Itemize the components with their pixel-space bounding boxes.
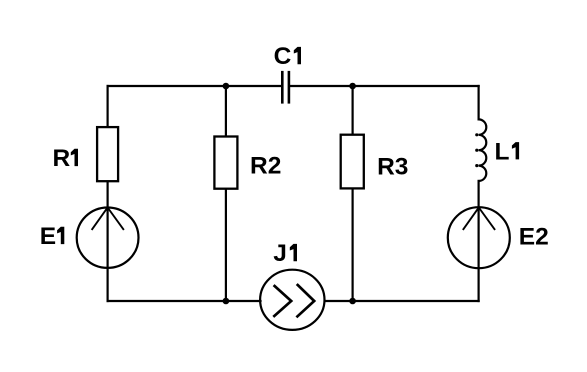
wire left rail upper (top corner to R1) xyxy=(106,86,108,127)
wire R2 branch upper xyxy=(225,86,227,136)
label L1 xyxy=(495,138,520,165)
svg-text:C: C xyxy=(274,43,292,70)
wire top rail left segment xyxy=(108,85,282,87)
node junction dot bottom right (R3 bottom) xyxy=(349,298,356,305)
label C1 xyxy=(274,43,301,70)
current source J1 xyxy=(260,270,324,330)
label E1 xyxy=(40,223,65,250)
wire right rail upper (top corner to L1) xyxy=(478,86,480,119)
voltage source E2 xyxy=(448,207,510,268)
node junction dot bottom left (R2 bottom) xyxy=(223,298,230,305)
svg-text:L: L xyxy=(495,138,510,165)
node junction dot top left (R2 top) xyxy=(223,83,230,90)
svg-text:R3: R3 xyxy=(377,154,408,181)
label R1 xyxy=(53,145,78,172)
voltage source E1 xyxy=(77,208,139,268)
wire bottom rail right segment xyxy=(325,300,479,302)
resistor R2 xyxy=(214,137,237,189)
inductor L1 xyxy=(475,119,486,181)
svg-text:R2: R2 xyxy=(250,153,281,180)
wire left rail lower (R1 to bottom rail, arrow shaft through E1) xyxy=(106,182,108,301)
svg-text:R: R xyxy=(53,145,71,172)
wire R3 branch upper xyxy=(352,86,354,134)
resistor R1 xyxy=(97,127,118,181)
capacitor C1 xyxy=(282,71,289,104)
svg-text:E2: E2 xyxy=(519,223,549,250)
wire R2 branch lower xyxy=(225,190,227,302)
wire top rail right segment xyxy=(290,85,479,87)
wire bottom rail left segment xyxy=(108,300,261,302)
label J1 xyxy=(273,240,297,267)
wire R3 branch lower xyxy=(352,189,354,301)
svg-text:J: J xyxy=(273,240,287,267)
svg-text:E: E xyxy=(40,223,56,250)
resistor R3 xyxy=(341,135,364,189)
wire right rail lower (L1 to bottom rail, arrow shaft through E2) xyxy=(478,181,480,301)
node junction dot top right (R3 top) xyxy=(349,83,356,90)
